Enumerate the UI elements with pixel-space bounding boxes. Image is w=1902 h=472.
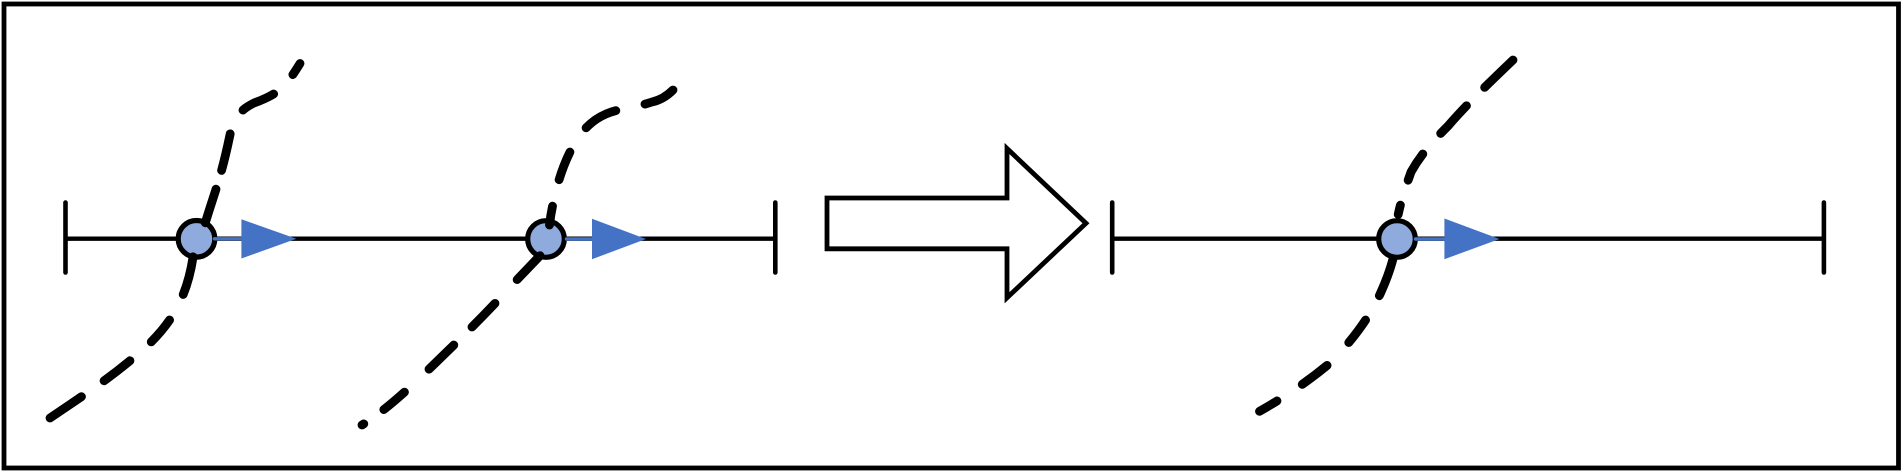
dashed trajectory 1, upper part	[205, 64, 300, 223]
blue arrow 2 head	[592, 219, 646, 259]
blue arrow 1 stem	[215, 237, 244, 240]
node 1 circle	[178, 221, 215, 258]
dashed trajectory 2, lower part	[362, 256, 540, 425]
left timeline: left end tick	[63, 203, 68, 273]
blue arrow 2 stem	[567, 237, 594, 240]
left timeline: right end tick	[773, 203, 778, 273]
big block arrow	[827, 149, 1086, 298]
dashed trajectory 1, lower part	[50, 257, 193, 418]
node 2 circle	[528, 221, 565, 258]
right timeline: right end tick	[1822, 203, 1827, 273]
node 3 circle (drawn over the dashes)	[1379, 221, 1416, 258]
dashed trajectory 3, lower part	[1260, 259, 1393, 411]
right timeline: left end tick	[1110, 203, 1115, 273]
left timeline: horizontal line	[66, 236, 776, 240]
dashed trajectory 3, upper part	[1398, 60, 1513, 215]
blue arrow 3 stem	[1416, 237, 1446, 240]
right timeline: horizontal line	[1112, 236, 1824, 240]
blue arrow 1 head	[241, 219, 296, 258]
dashed trajectory 2, upper part	[550, 90, 674, 225]
blue arrow 3 head	[1444, 219, 1499, 260]
